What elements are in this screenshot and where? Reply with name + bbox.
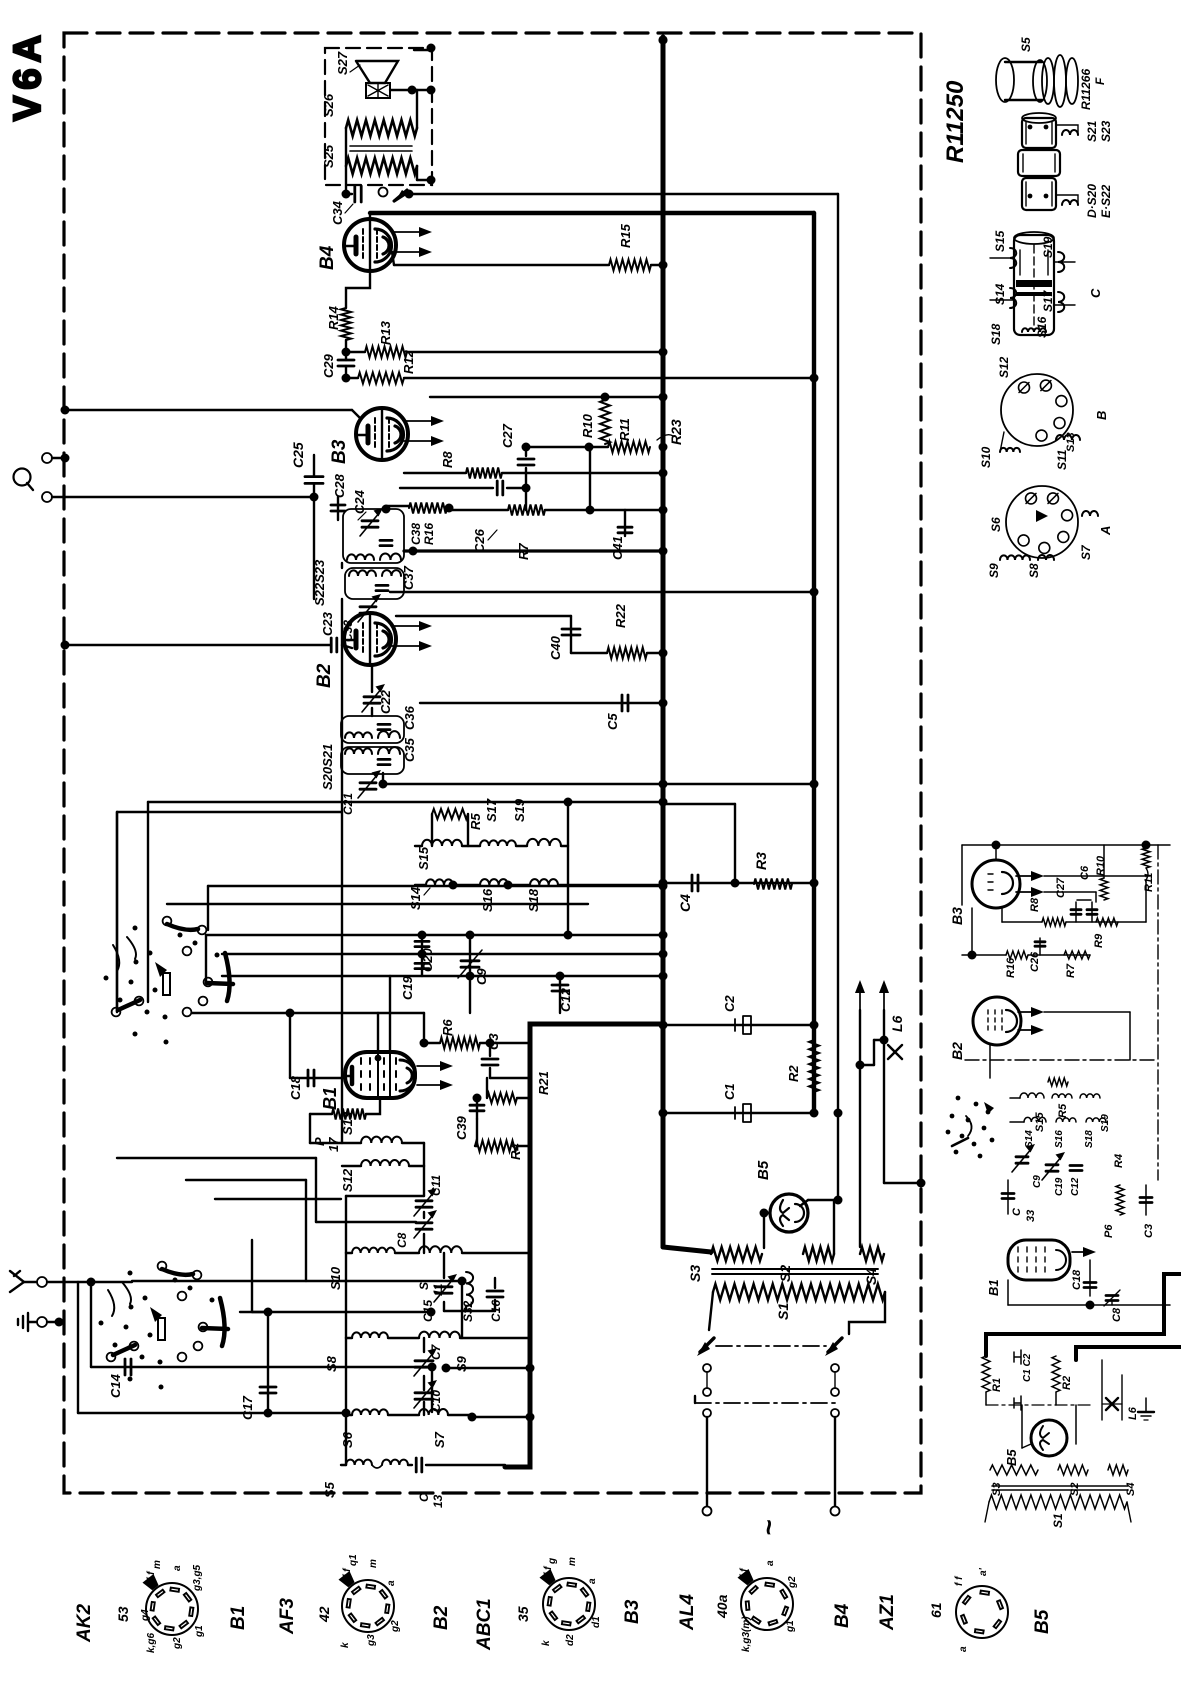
wire	[116, 812, 118, 1012]
svg-text:C6: C6	[1079, 865, 1091, 880]
svg-text:C26: C26	[1029, 951, 1041, 972]
svg-text:S23: S23	[1099, 120, 1113, 142]
resistor R8	[404, 472, 466, 474]
svg-text:S18: S18	[526, 888, 541, 912]
mini tube B2	[973, 997, 1021, 1045]
svg-text:R16: R16	[422, 523, 436, 545]
svg-text:C24: C24	[352, 489, 367, 514]
svg-text:R21: R21	[536, 1071, 551, 1095]
capacitor C4	[663, 882, 814, 884]
svg-text:S9: S9	[454, 1355, 469, 1372]
svg-text:C23: C23	[320, 611, 335, 636]
svg-text:C17: C17	[240, 1395, 255, 1420]
coil S7	[419, 1409, 448, 1415]
capacitor C3	[489, 1043, 491, 1056]
wire speaker to frame	[414, 49, 431, 51]
svg-text:S7: S7	[432, 1431, 447, 1448]
wire	[884, 1182, 921, 1184]
svg-text:k,g6: k,g6	[146, 1633, 157, 1653]
svg-text:S17: S17	[1041, 289, 1055, 312]
screen arrow	[404, 440, 436, 442]
mini windings S3 S2 S4	[990, 1465, 1038, 1475]
svg-text:S10: S10	[979, 446, 993, 468]
socket A	[1006, 486, 1078, 558]
svg-text:R14: R14	[326, 305, 341, 330]
capacitor C26	[400, 487, 493, 489]
capacitor C20	[421, 935, 423, 954]
speaker sub-frame (dashed)	[325, 48, 432, 185]
mini tube B1	[1008, 1240, 1070, 1280]
svg-text:S17: S17	[484, 798, 499, 822]
svg-text:B4: B4	[317, 245, 338, 270]
svg-text:g3,g5: g3,g5	[192, 1564, 203, 1592]
trimmer C10	[415, 1391, 433, 1394]
tube B3	[356, 408, 408, 460]
svg-text:S7: S7	[1079, 544, 1093, 560]
resistor R3	[754, 879, 792, 890]
svg-text:a': a'	[978, 1567, 989, 1576]
svg-text:B5: B5	[755, 1160, 772, 1180]
wire B1 grid feeds	[377, 1013, 379, 1052]
svg-text:a: a	[386, 1580, 397, 1586]
svg-text:B1: B1	[228, 1606, 249, 1630]
trimmer C11	[423, 1190, 425, 1196]
wire	[185, 1012, 424, 1014]
antenna symbol	[10, 1271, 24, 1292]
svg-text:S18: S18	[989, 323, 1003, 345]
coil S11	[419, 1246, 462, 1253]
svg-text:S16: S16	[480, 888, 495, 912]
wire	[206, 934, 663, 936]
mini resistor R10	[1100, 878, 1108, 900]
svg-text:33: 33	[1025, 1210, 1037, 1222]
coil S21	[345, 732, 372, 738]
svg-text:B3: B3	[622, 1599, 643, 1624]
wire	[345, 128, 347, 194]
coil S9	[419, 1332, 460, 1338]
svg-text:R3: R3	[753, 852, 769, 870]
svg-text:C22: C22	[378, 689, 393, 714]
wire	[346, 271, 370, 308]
svg-text:S3: S3	[687, 1265, 703, 1282]
capacitor C28	[337, 497, 339, 520]
capacitor C35	[378, 758, 390, 761]
svg-text:C19: C19	[400, 975, 415, 1000]
svg-text:C1: C1	[722, 1083, 737, 1100]
coil S16	[480, 879, 508, 885]
svg-text:R11: R11	[617, 418, 632, 441]
mini resistor R6	[1116, 1185, 1124, 1215]
mini wire	[1077, 899, 1091, 901]
switch link (dash-dot)	[716, 1345, 826, 1347]
wire	[186, 1179, 306, 1181]
svg-text:C: C	[417, 1493, 431, 1502]
waveband switch wafer 1	[163, 917, 172, 926]
svg-text:A: A	[1098, 526, 1113, 536]
svg-text:R10: R10	[580, 413, 595, 438]
trimmer C8	[416, 1221, 432, 1224]
capacitor C17	[267, 1312, 269, 1413]
mini resistor R11	[1142, 848, 1150, 868]
svg-text:E·S22: E·S22	[1099, 184, 1113, 218]
resistor R11	[526, 446, 608, 448]
capacitor C38	[380, 539, 392, 542]
svg-text:q1: q1	[348, 1554, 359, 1566]
capacitor C40	[396, 615, 571, 617]
capacitor C14	[91, 1366, 432, 1368]
wire B+ bus (thick vertical)	[661, 37, 666, 1247]
svg-text:S20S21: S20S21	[320, 744, 335, 790]
resistor R14	[341, 308, 351, 340]
svg-text:C41: C41	[610, 536, 625, 560]
coil S5	[341, 1464, 346, 1466]
svg-text:k,g3(m): k,g3(m)	[741, 1616, 752, 1652]
wire	[78, 1412, 346, 1414]
resistor R22	[571, 652, 607, 654]
mini wire dash-dot rails	[965, 1059, 1158, 1061]
capacitor C23	[330, 638, 333, 652]
ground terminal	[37, 1317, 47, 1327]
mini resistor R8	[1002, 921, 1042, 923]
svg-text:S19: S19	[1041, 236, 1055, 258]
anode arrow	[404, 420, 436, 422]
svg-text:S1: S1	[775, 1303, 791, 1320]
mini tube B3	[972, 860, 1020, 908]
svg-text:f f: f f	[739, 1567, 750, 1578]
dial lamp wires	[859, 988, 861, 1010]
resistor R12	[358, 373, 404, 384]
svg-text:R15: R15	[618, 223, 633, 248]
terminal	[42, 453, 52, 463]
svg-text:C5: C5	[605, 713, 620, 730]
svg-text:S26: S26	[321, 93, 336, 117]
wire	[208, 885, 663, 887]
svg-text:f f: f f	[146, 1570, 157, 1581]
svg-text:S22S23: S22S23	[312, 559, 327, 606]
svg-text:f f: f f	[543, 1565, 554, 1576]
svg-text:R4: R4	[1113, 1154, 1125, 1168]
svg-text:g: g	[547, 1558, 558, 1565]
svg-text:B2: B2	[431, 1605, 452, 1630]
svg-text:S16: S16	[1035, 316, 1049, 338]
pickup terminal symbol	[14, 469, 31, 486]
svg-text:C34: C34	[330, 200, 345, 225]
svg-text:V6A: V6A	[7, 29, 49, 121]
capacitor C27	[525, 447, 527, 456]
mains switch pole 1	[700, 1338, 714, 1352]
wire	[148, 801, 663, 803]
coil S15	[415, 845, 422, 847]
coil S18	[530, 879, 558, 885]
svg-text:B3: B3	[949, 907, 965, 925]
IF transformer S20 box	[341, 747, 404, 774]
anode arrow	[392, 231, 424, 233]
mains leads	[703, 1409, 711, 1417]
svg-text:S21: S21	[1085, 120, 1099, 142]
wire	[215, 1198, 341, 1200]
svg-text:m: m	[368, 1559, 379, 1568]
screen arrow	[392, 645, 424, 647]
svg-text:C28: C28	[332, 473, 347, 498]
mini resistor R2	[1052, 1356, 1060, 1392]
mini resistor R7	[1064, 951, 1090, 959]
coil S20	[345, 748, 372, 754]
mains switch pole 2	[828, 1338, 842, 1352]
svg-text:R22: R22	[613, 603, 628, 628]
svg-text:C2: C2	[722, 995, 737, 1012]
svg-text:S25: S25	[321, 144, 336, 168]
switch contact	[379, 188, 388, 197]
socket B	[1001, 374, 1073, 446]
svg-text:35: 35	[515, 1606, 531, 1622]
svg-text:S1: S1	[1051, 1513, 1065, 1528]
trimmer C2x	[360, 781, 376, 784]
svg-text:R11266: R11266	[1079, 69, 1093, 110]
mini tube B5	[1031, 1420, 1067, 1456]
coil unit F	[996, 58, 1014, 102]
capacitor C41	[624, 510, 626, 536]
svg-text:S6: S6	[340, 1431, 355, 1448]
wire	[734, 804, 736, 883]
ground symbol	[28, 1321, 36, 1323]
svg-text:S4: S4	[863, 1268, 879, 1285]
capacitor C39	[476, 1098, 478, 1119]
svg-text:d2: d2	[565, 1634, 576, 1646]
svg-text:a: a	[172, 1565, 183, 1571]
wire	[589, 447, 591, 510]
capacitor C37	[376, 584, 388, 587]
coil unit C	[1014, 235, 1054, 335]
svg-text:S9: S9	[987, 563, 1001, 578]
wire	[251, 1240, 253, 1312]
wire anode line	[430, 396, 663, 398]
coil S32	[466, 1272, 473, 1306]
svg-text:C19: C19	[1054, 1177, 1065, 1196]
svg-text:S10: S10	[328, 1266, 343, 1290]
svg-text:C35: C35	[402, 737, 417, 762]
IF transformer S23 box	[343, 509, 404, 563]
wire	[222, 953, 663, 955]
svg-text:61: 61	[928, 1602, 944, 1618]
terminal	[42, 492, 52, 502]
wire staircase	[117, 1157, 316, 1159]
svg-text:R2: R2	[1061, 1376, 1073, 1390]
svg-text:C11: C11	[429, 1175, 443, 1196]
svg-text:B2: B2	[314, 663, 335, 688]
svg-text:B5: B5	[1032, 1609, 1053, 1634]
svg-text:53: 53	[115, 1606, 131, 1622]
svg-text:R23: R23	[668, 419, 684, 445]
mini capacitor C27	[1075, 902, 1077, 922]
svg-text:a: a	[765, 1560, 776, 1566]
wire	[222, 975, 663, 977]
mains transformer core	[712, 1268, 878, 1270]
rectifier tube B5	[770, 1194, 808, 1232]
svg-text:R2: R2	[786, 1065, 801, 1082]
coil S13	[310, 1142, 361, 1144]
mini switch wafer dots	[956, 1096, 961, 1101]
svg-text:S19: S19	[1100, 1114, 1111, 1132]
svg-text:S18: S18	[1084, 1130, 1095, 1148]
svg-text:S5: S5	[1019, 37, 1033, 52]
resistor R16	[382, 505, 391, 514]
mini capacitor C3	[1145, 1185, 1147, 1215]
heater winding S2	[803, 1247, 834, 1261]
wire B+ return (thick)	[505, 1024, 663, 1467]
wire	[431, 1367, 433, 1412]
coil S12	[342, 1165, 361, 1167]
svg-text:C37: C37	[401, 565, 416, 590]
svg-text:C25: C25	[290, 442, 306, 468]
mini dash-dot	[986, 1404, 1090, 1406]
svg-text:S16: S16	[1054, 1130, 1065, 1148]
trimmer C22	[364, 695, 380, 698]
output transformer winding S25	[346, 158, 417, 174]
svg-text:g2: g2	[390, 1620, 401, 1633]
svg-text:k: k	[340, 1642, 351, 1648]
IF transformer S22 box	[345, 568, 404, 599]
svg-text:C27: C27	[1055, 877, 1067, 898]
capacitor C34	[346, 193, 352, 195]
svg-text:g1: g1	[785, 1620, 796, 1633]
mini thick feed	[986, 1274, 1181, 1356]
svg-text:B4: B4	[832, 1603, 853, 1628]
svg-text:R12: R12	[401, 349, 416, 374]
svg-text:S27: S27	[335, 51, 350, 75]
wire	[240, 1311, 268, 1313]
wire HT bus 2 (thick)	[812, 213, 816, 1113]
svg-text:C3: C3	[1143, 1224, 1155, 1238]
wire S22 bottom to bus (thick)	[404, 549, 663, 552]
svg-text:S15: S15	[1034, 1112, 1046, 1132]
svg-text:g3: g3	[366, 1634, 377, 1647]
svg-text:m: m	[152, 1560, 163, 1569]
anode arrow	[417, 1065, 445, 1067]
svg-text:C: C	[1011, 1207, 1023, 1216]
winding S4	[860, 1247, 884, 1261]
capacitor C29	[338, 359, 354, 362]
svg-text:40a: 40a	[714, 1594, 730, 1619]
capacitor C16	[494, 1278, 496, 1288]
svg-text:S: S	[417, 1282, 431, 1290]
svg-text:C40: C40	[548, 635, 563, 660]
waveband switch wafer 2	[158, 1262, 167, 1271]
svg-text:L6: L6	[1127, 1406, 1139, 1420]
IF transformer S21 box	[341, 716, 404, 743]
svg-text:R8: R8	[1029, 897, 1041, 912]
resistor R5	[432, 809, 468, 819]
capacitor C19	[421, 954, 423, 976]
loudspeaker S27	[356, 61, 398, 83]
capacitor C13	[408, 1464, 412, 1466]
svg-text:17: 17	[326, 1137, 341, 1152]
svg-text:C1 C2: C1 C2	[1022, 1353, 1033, 1382]
svg-text:R11: R11	[1143, 873, 1155, 892]
svg-text:R6: R6	[440, 1019, 455, 1036]
capacitor C2	[663, 1024, 814, 1026]
svg-text:B: B	[1094, 411, 1109, 420]
svg-text:B5: B5	[1004, 1449, 1019, 1466]
wire	[567, 802, 569, 935]
trimmer cap C24 arrow	[362, 519, 378, 522]
tube B2	[344, 613, 396, 665]
coil unit D/E	[1022, 118, 1056, 148]
svg-text:f f: f f	[342, 1567, 353, 1578]
coil S19	[527, 839, 561, 846]
svg-text:ABC1: ABC1	[474, 1598, 495, 1651]
mini wire	[971, 908, 973, 955]
svg-text:C18: C18	[1071, 1269, 1083, 1290]
capacitor C5	[420, 702, 663, 704]
svg-text:R7: R7	[1065, 963, 1077, 978]
resistor R21	[490, 1077, 530, 1079]
svg-text:S14: S14	[408, 886, 423, 910]
wire switch to line	[147, 802, 149, 1002]
wire	[383, 783, 814, 785]
svg-text:S5: S5	[322, 1481, 337, 1498]
capacitor C1	[663, 1112, 814, 1114]
mains transformer primary S1	[713, 1284, 885, 1300]
coil S6	[346, 1414, 352, 1416]
svg-text:g4: g4	[140, 1609, 151, 1622]
svg-text:D·S20: D·S20	[1085, 184, 1099, 218]
mini capacitor C6	[1091, 902, 1093, 922]
svg-text:C29: C29	[321, 353, 336, 378]
svg-text:S8: S8	[1027, 563, 1041, 578]
svg-text:a: a	[958, 1646, 969, 1652]
wire	[341, 563, 343, 568]
svg-text:B1: B1	[986, 1279, 1001, 1296]
svg-text:S8: S8	[324, 1355, 339, 1372]
resistor R2	[809, 1040, 819, 1092]
wire to B3 grid	[65, 409, 352, 411]
svg-text:C7: C7	[429, 1343, 443, 1360]
svg-text:R9: R9	[1093, 933, 1105, 948]
svg-text:R10: R10	[1095, 855, 1107, 876]
svg-text:P6: P6	[1103, 1224, 1115, 1238]
resistor R4	[475, 1145, 477, 1147]
svg-text:S19: S19	[512, 798, 527, 822]
svg-text:C3: C3	[486, 1033, 501, 1050]
resistor R10	[600, 400, 610, 444]
mini primary S1	[989, 1495, 1127, 1509]
resistor R13	[346, 351, 365, 353]
svg-text:C38: C38	[409, 523, 423, 545]
mini transformer core	[992, 1485, 1128, 1487]
svg-text:AZ1: AZ1	[877, 1594, 898, 1631]
svg-text:B1: B1	[320, 1087, 340, 1110]
svg-text:S12: S12	[340, 1168, 355, 1192]
wire pickup line	[52, 496, 314, 498]
svg-text:S14: S14	[993, 283, 1007, 305]
svg-text:C36: C36	[402, 705, 417, 730]
svg-text:C39: C39	[454, 1115, 469, 1140]
svg-text:AF3: AF3	[277, 1598, 298, 1635]
svg-text:R1: R1	[991, 1378, 1003, 1392]
coil S22	[349, 570, 376, 576]
svg-text:m: m	[567, 1557, 578, 1566]
svg-text:C8: C8	[1111, 1307, 1123, 1322]
mini wire	[1008, 1304, 1170, 1306]
mini capacitor C8	[1106, 1294, 1118, 1297]
svg-text:~: ~	[753, 1520, 784, 1536]
svg-text:P: P	[312, 1137, 327, 1146]
tube B4	[344, 219, 396, 271]
wire	[390, 591, 814, 593]
resistor R7	[525, 488, 527, 510]
svg-text:g2: g2	[787, 1576, 798, 1589]
svg-text:R11250: R11250	[942, 80, 969, 163]
